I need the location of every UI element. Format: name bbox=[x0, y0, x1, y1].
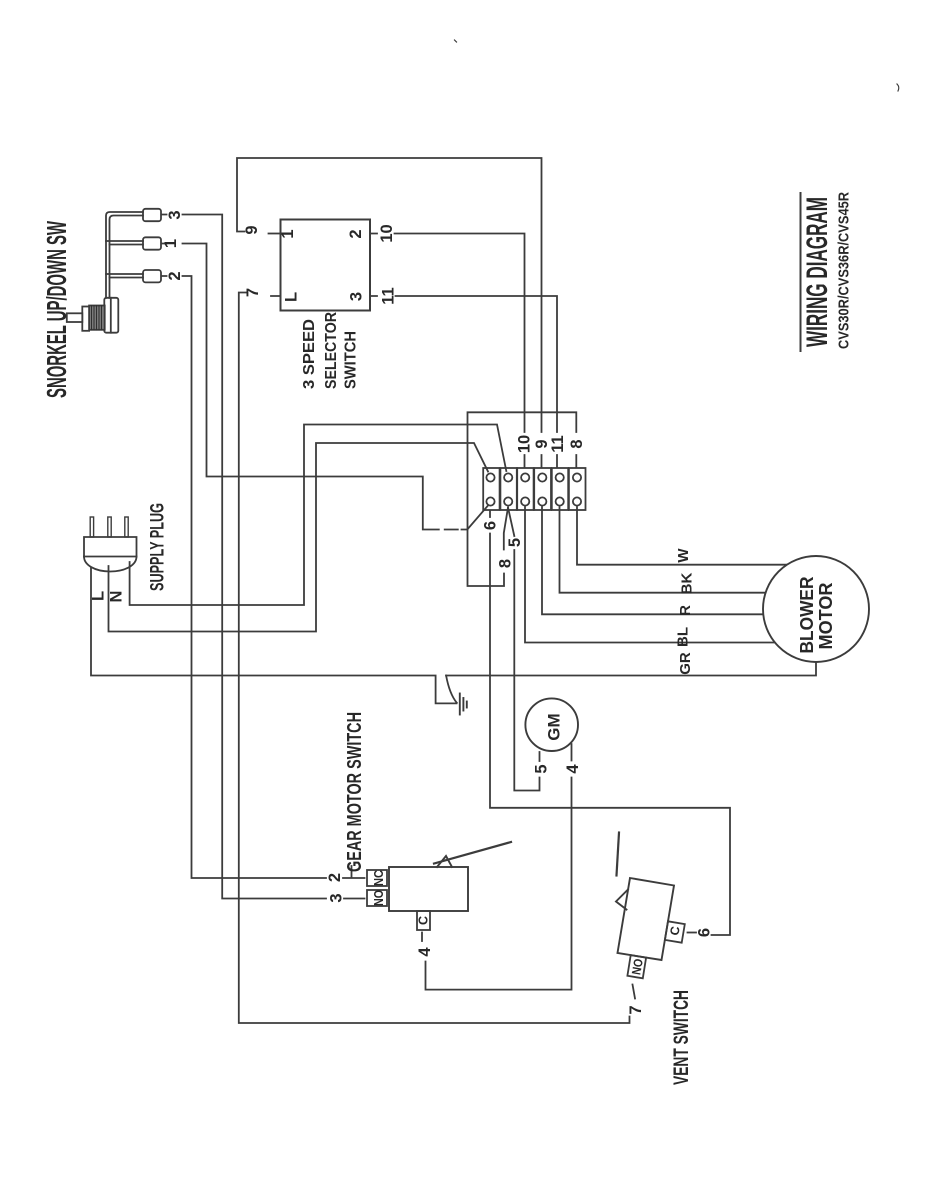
svg-text:7: 7 bbox=[244, 288, 262, 297]
gear motor switch NC terminal box bbox=[367, 870, 387, 886]
speck top bbox=[455, 40, 457, 42]
svg-text:4: 4 bbox=[416, 947, 434, 957]
svg-text:10: 10 bbox=[516, 435, 534, 453]
ground lead curve bbox=[446, 676, 457, 703]
terminal block cells bbox=[483, 468, 585, 510]
svg-text:6: 6 bbox=[482, 521, 500, 530]
gear motor (GM) circle bbox=[525, 698, 578, 751]
svg-text:3: 3 bbox=[348, 292, 366, 301]
terminal label dashes 10 9 11 8 bbox=[525, 455, 577, 467]
snorkel cable pair vertical bbox=[106, 212, 143, 298]
svg-text:SELECTOR: SELECTOR bbox=[323, 312, 340, 389]
vent switch C terminal box bbox=[665, 921, 685, 942]
snorkel switch body bbox=[104, 298, 118, 333]
wire 11 (selector pin 3 to terminal 11) bbox=[371, 296, 558, 432]
svg-text:6: 6 bbox=[696, 928, 714, 937]
wire 1 diagonal to terminal col1 bottom bbox=[467, 506, 488, 530]
svg-text:3: 3 bbox=[328, 893, 346, 902]
supply GR wire to blower bottom bbox=[446, 663, 816, 676]
vent switch NO terminal box bbox=[627, 955, 646, 978]
svg-text:MOTOR: MOTOR bbox=[816, 583, 836, 650]
svg-text:CVS30R/CVS36R/CVS45R: CVS30R/CVS36R/CVS45R bbox=[836, 192, 853, 349]
svg-text:BL: BL bbox=[675, 627, 692, 647]
title underline bbox=[800, 193, 802, 351]
wire 5 vertical down to GM bbox=[514, 550, 539, 791]
svg-text:5: 5 bbox=[533, 764, 551, 773]
svg-text:NC: NC bbox=[372, 870, 386, 886]
gear motor switch lever bbox=[434, 842, 511, 864]
wire: selector pin1 dash bbox=[269, 233, 280, 235]
wire 8 loop (terminal col6 top rail rectangle) bbox=[468, 412, 577, 586]
wire 4 dash at gear C bbox=[421, 933, 423, 942]
svg-text:L: L bbox=[90, 591, 108, 601]
gear motor switch C terminal box bbox=[417, 911, 430, 930]
snorkel cable branch to connector 1 bbox=[106, 241, 143, 245]
wire 9 (selector pin 1 to top rail to terminal 9) bbox=[237, 158, 542, 432]
wire BK (terminal col5 to blower) bbox=[560, 507, 766, 593]
snorkel connector 1 bbox=[143, 237, 161, 249]
vent switch lever bbox=[617, 833, 620, 876]
supply plug body bbox=[84, 537, 137, 557]
svg-text:5: 5 bbox=[506, 538, 524, 547]
svg-text:GR: GR bbox=[677, 652, 694, 675]
svg-text:1: 1 bbox=[162, 239, 180, 248]
blower motor circle bbox=[763, 556, 869, 662]
svg-text:9: 9 bbox=[243, 225, 261, 234]
snorkel switch bushing (hatched) bbox=[89, 306, 105, 330]
wire 6 dash at vent C bbox=[688, 932, 697, 934]
terminal block circles bottom row bbox=[486, 497, 581, 505]
svg-text:BK: BK bbox=[679, 573, 696, 595]
svg-text:VENT SWITCH: VENT SWITCH bbox=[670, 990, 693, 1085]
svg-text:4: 4 bbox=[564, 764, 582, 774]
wire 4 (GM to gear C) bbox=[426, 744, 572, 990]
snorkel cable branch to connector 2 bbox=[106, 274, 143, 278]
svg-text:R: R bbox=[677, 605, 694, 616]
svg-text:N: N bbox=[108, 591, 126, 603]
svg-text:11: 11 bbox=[549, 435, 567, 452]
gear motor switch label leader tick bbox=[351, 866, 353, 877]
svg-text:SWITCH: SWITCH bbox=[343, 331, 360, 389]
svg-text:3 SPEED: 3 SPEED bbox=[301, 319, 318, 389]
svg-text:11: 11 bbox=[380, 287, 398, 304]
wire 5 dash at GM bbox=[539, 752, 541, 761]
wire 5 diagonal from col2 bottom bbox=[508, 508, 514, 537]
svg-text:2: 2 bbox=[347, 229, 365, 238]
wire 7 dash at vent NO bbox=[633, 985, 636, 999]
snorkel switch plunger bbox=[67, 313, 83, 322]
svg-text:8: 8 bbox=[568, 439, 586, 448]
svg-text:1: 1 bbox=[279, 229, 297, 238]
vent switch body bbox=[618, 878, 675, 960]
svg-text:W: W bbox=[675, 548, 692, 563]
svg-text:NO: NO bbox=[629, 957, 646, 975]
svg-text:7: 7 bbox=[627, 1005, 645, 1014]
wire 3 dash at gear NO bbox=[344, 898, 365, 900]
wire BL (terminal col3 to blower) bbox=[525, 507, 774, 643]
supply N wire to terminal col1 top bbox=[109, 443, 489, 632]
snorkel switch collar bbox=[82, 307, 89, 331]
svg-text:2: 2 bbox=[166, 271, 184, 280]
svg-text:8: 8 bbox=[497, 559, 515, 568]
svg-text:L: L bbox=[283, 292, 301, 302]
svg-text:GEAR MOTOR SWITCH: GEAR MOTOR SWITCH bbox=[344, 712, 366, 872]
speck right bbox=[897, 84, 899, 91]
svg-text:10: 10 bbox=[378, 224, 396, 242]
gear motor switch NO terminal box bbox=[367, 890, 387, 906]
wire W (terminal col6 to blower) bbox=[577, 507, 786, 565]
wire 3 (snorkel to gear NO) bbox=[162, 215, 327, 899]
wire 6 dash below col1 bottom bbox=[489, 511, 491, 518]
svg-text:NO: NO bbox=[372, 890, 386, 906]
gear motor switch body bbox=[389, 867, 468, 911]
wire 1 (snorkel to terminal 6, dashed end) bbox=[162, 244, 468, 530]
wire R (terminal col4 to blower) bbox=[542, 507, 763, 614]
wire 8 upper segment and diagonal to col2 bottom bbox=[504, 508, 508, 550]
wire 6 vertical down to vent switch C bbox=[490, 534, 730, 936]
snorkel connector 2 bbox=[143, 270, 161, 282]
svg-text:C: C bbox=[417, 916, 431, 925]
3 speed selector switch box bbox=[281, 220, 371, 311]
svg-text:3: 3 bbox=[166, 210, 184, 219]
svg-text:2: 2 bbox=[326, 873, 344, 882]
wire 2 (snorkel to gear NC) bbox=[162, 276, 327, 878]
svg-text:SNORKEL UP/DOWN SW: SNORKEL UP/DOWN SW bbox=[41, 221, 72, 398]
ground symbol bars bbox=[460, 694, 467, 715]
svg-text:GM: GM bbox=[545, 713, 564, 740]
svg-text:WIRING DIAGRAM: WIRING DIAGRAM bbox=[801, 197, 834, 347]
svg-text:BLOWER: BLOWER bbox=[797, 577, 817, 654]
snorkel connector 3 bbox=[143, 209, 161, 221]
supply third wire to terminal col2 top bbox=[130, 425, 507, 606]
supply plug prongs bbox=[90, 517, 93, 537]
svg-text:SUPPLY PLUG: SUPPLY PLUG bbox=[148, 503, 169, 591]
terminal block circles top row bbox=[486, 473, 581, 481]
supply L wire to ground dip bbox=[91, 568, 457, 703]
wire 10 (selector pin 2 to terminal 10) bbox=[371, 234, 525, 433]
wire 7 (selector pin L to vent switch NO) bbox=[239, 293, 630, 1024]
wire 2 dash at gear NC bbox=[343, 877, 365, 879]
